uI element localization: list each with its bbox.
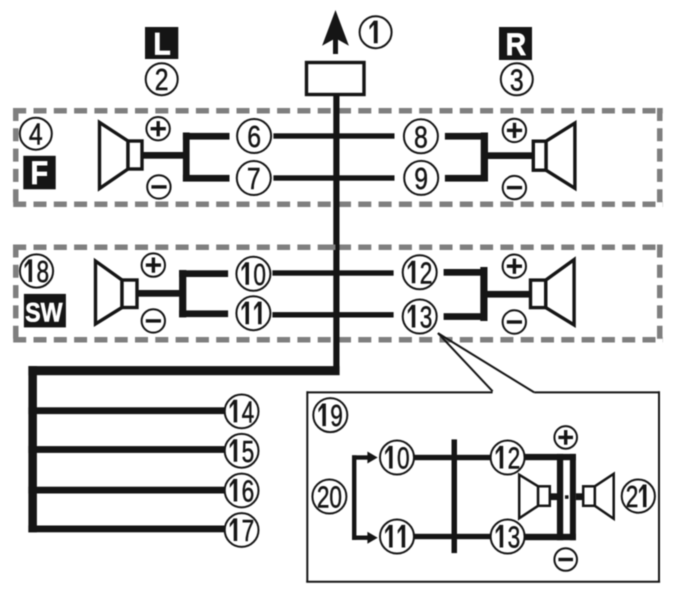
antenna arrow (item 1) [322, 10, 349, 54]
wire to 17 [28, 526, 226, 533]
detail circle 10 [380, 440, 414, 475]
svg-text:20: 20 [317, 479, 342, 514]
svg-text:2: 2 [508, 440, 521, 475]
label R [499, 27, 532, 62]
label L [145, 27, 178, 62]
terminal circle 9 [404, 161, 438, 196]
callout circle 1 [360, 16, 392, 48]
callout circle 2 [146, 63, 178, 97]
wire to 15 [28, 446, 226, 453]
plus FL [146, 117, 169, 140]
svg-text:7: 7 [247, 161, 261, 195]
bracket top arm with arrow to 10 [352, 452, 378, 464]
svg-text:2: 2 [626, 479, 639, 514]
wire to 16 [28, 487, 226, 494]
wire: fork to speaker FR [486, 152, 533, 159]
wire to 14 [28, 407, 226, 414]
plus FR [503, 119, 526, 142]
detail wire woofer to bus [550, 493, 558, 500]
minus SWL [142, 309, 165, 332]
wire 6 to 8 [273, 133, 394, 138]
terminal circle 8 [404, 119, 438, 154]
fork FL bottom arm (to 7) [183, 175, 230, 182]
terminal circle 11 [236, 296, 270, 330]
wire: speaker SWL to fork [137, 290, 182, 297]
plus SWL [142, 253, 165, 276]
terminal circle 6 [237, 119, 271, 154]
bracket 20 vertical [352, 455, 356, 540]
svg-text:3: 3 [510, 63, 524, 97]
svg-text:SW: SW [25, 298, 63, 328]
detail bottom wire from 13 [525, 534, 576, 540]
speaker front-right [533, 123, 575, 188]
terminal circle 7 [237, 161, 271, 196]
svg-text:2: 2 [420, 255, 433, 290]
detail circle 12 [491, 440, 525, 475]
svg-text:8: 8 [414, 120, 428, 154]
detail plus [554, 426, 577, 449]
bracket bottom arm with arrow to 11 [352, 532, 378, 544]
callout circle 4 [20, 117, 52, 151]
terminal circle 13 [403, 299, 437, 334]
detail box border [306, 391, 660, 582]
detail wire 10-12 [414, 455, 491, 460]
svg-text:6: 6 [242, 473, 255, 508]
detail top wire from 12 [525, 454, 576, 460]
svg-text:3: 3 [420, 299, 433, 334]
svg-text:F: F [31, 156, 49, 192]
fork SWR top arm (from 12) [444, 269, 484, 276]
main trunk wire (vertical) [333, 94, 339, 371]
detail speaker woofer [519, 475, 550, 519]
fork FR vertical [481, 133, 488, 182]
svg-text:0: 0 [397, 440, 410, 475]
minus FR [503, 176, 526, 199]
detail circle 11 [380, 520, 414, 554]
detail crossing line [452, 439, 458, 553]
detail wire 11-13 [414, 534, 491, 539]
svg-text:8: 8 [36, 253, 49, 288]
speaker SW-right [531, 260, 575, 325]
svg-text:6: 6 [247, 119, 261, 153]
svg-text:3: 3 [508, 519, 521, 554]
terminal circle 14 [225, 394, 259, 429]
terminal circle 10 [236, 256, 270, 291]
callout circle 19 [313, 398, 347, 433]
wire 7 to 9 [273, 175, 394, 180]
callout circle 18 [20, 253, 53, 288]
minus FL [147, 175, 170, 198]
callout circle 20 [312, 479, 346, 514]
harness horizontal wire [28, 366, 339, 375]
label F [23, 156, 55, 192]
svg-text:7: 7 [242, 512, 255, 547]
wire: speaker FL to fork [142, 152, 186, 159]
dash overlapping trunk at SW top border [327, 245, 336, 251]
wire 10 to 12 [272, 270, 393, 275]
svg-text:4: 4 [242, 394, 255, 429]
fork SWL bottom arm (to 11) [179, 310, 228, 317]
wire 11 to 13 [272, 312, 393, 317]
fork FR bottom arm (from 9) [445, 175, 485, 182]
svg-text:2: 2 [155, 63, 169, 97]
detail junction dot [565, 495, 569, 499]
wire: fork to speaker SWR [485, 291, 531, 298]
fork SWR vertical [480, 267, 487, 321]
terminal circle 16 [225, 473, 259, 508]
detail circle 13 [491, 519, 525, 554]
svg-text:L: L [153, 27, 170, 62]
callout leader left line [438, 333, 493, 391]
callout leader right line [438, 333, 534, 392]
label SW [24, 294, 66, 328]
fork FL vertical [183, 133, 190, 182]
minus SWR [503, 310, 526, 333]
dashed box: front speakers (F) [13, 108, 663, 207]
detail right bus bar [570, 454, 576, 540]
svg-text:9: 9 [414, 161, 428, 195]
speaker SW-left [96, 261, 138, 324]
svg-text:R: R [506, 27, 527, 62]
svg-text:0: 0 [253, 256, 266, 291]
harness left vertical wire [28, 366, 37, 532]
detail wire bus to tweeter [576, 493, 584, 500]
fork SWL top arm (to 10) [179, 270, 228, 277]
fork SWL vertical [179, 270, 186, 317]
antenna jack box [307, 63, 365, 95]
terminal circle 17 [225, 512, 259, 547]
fork FL top arm (to 6) [183, 133, 230, 140]
detail minus [554, 548, 577, 571]
detail left bus bar [557, 454, 563, 540]
speaker front-left [100, 122, 143, 188]
callout circle 21 [622, 479, 655, 514]
terminal circle 12 [403, 255, 437, 290]
plus SWR [503, 255, 526, 278]
fork FR top arm (from 8) [445, 133, 485, 140]
fork SWR bottom arm (from 13) [444, 313, 484, 320]
svg-text:5: 5 [242, 433, 255, 468]
svg-text:9: 9 [330, 398, 343, 433]
dashed box: subwoofer (SW) [13, 245, 663, 343]
callout circle 3 [501, 63, 533, 97]
detail speaker tweeter [583, 474, 614, 519]
svg-text:4: 4 [29, 117, 43, 151]
terminal circle 15 [225, 433, 259, 468]
